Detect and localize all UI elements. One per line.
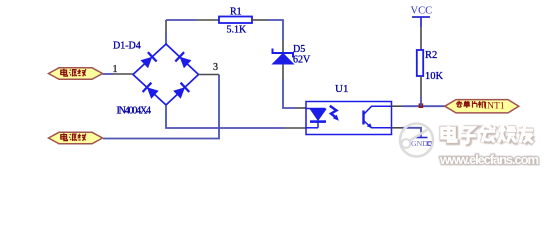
svg-text:5.1K: 5.1K: [227, 25, 248, 36]
svg-text:INT1: INT1: [484, 102, 505, 112]
svg-text:www.elecfans.com: www.elecfans.com: [439, 152, 539, 167]
svg-text:D1-D4: D1-D4: [113, 41, 141, 52]
wire node3 down to port2: [103, 75, 219, 139]
pin U1.4 collector: [392, 105, 403, 107]
resistor R2: [417, 50, 423, 76]
svg-text:D5: D5: [293, 44, 305, 55]
pin R1.1: [196, 19, 219, 21]
resistor R1: [219, 17, 252, 24]
wire R2 to junction: [420, 97, 422, 106]
port INT1 to MCU: [445, 100, 519, 113]
wire D5 to opto pin1: [283, 79, 296, 108]
pin R2.2: [420, 76, 422, 97]
wire inside box pin2 row: [306, 127, 318, 129]
svg-text:R2: R2: [425, 50, 437, 61]
diode D3 bottom-left: [143, 83, 159, 99]
power ground GND: [411, 138, 431, 149]
pin U1.3 emitter: [392, 127, 403, 129]
pin D5 anode: [282, 64, 284, 79]
pin R2.1: [420, 27, 422, 50]
wire port1 to bridge pin1: [103, 73, 114, 75]
pin D5 cathode: [282, 40, 284, 53]
wire top net from bridge plus to R1: [166, 19, 196, 21]
watermark logo circle: [400, 124, 433, 157]
bridge rectifier D1-D4 diamond: [133, 44, 199, 105]
pin bridge top: [165, 33, 167, 44]
svg-text:10K: 10K: [425, 71, 444, 82]
diode D4 bottom-right: [173, 83, 189, 99]
port INT1 text qu dan pian ji INT1: [456, 101, 485, 108]
pin R1.2: [252, 19, 268, 21]
svg-text:GND: GND: [411, 139, 428, 148]
port P1 dianyuanxian upper: [49, 68, 103, 80]
optocoupler U1 box: [306, 102, 392, 135]
port P1 text dianyuanxian: [61, 69, 86, 77]
port P2 dianyuanxian lower: [49, 132, 103, 144]
wire bridge top vertical: [165, 20, 167, 33]
opto LED: [306, 109, 326, 128]
pin U1.1: [296, 107, 306, 109]
power VCC symbol: [412, 17, 430, 27]
pin bridge right pin 3: [199, 74, 220, 76]
zener diode D5: [273, 49, 294, 65]
port P2 text dianyuanxian: [61, 133, 86, 141]
wire collector to port INT1: [402, 105, 445, 107]
opto phototransistor: [364, 106, 392, 128]
opto photon arrow: [330, 106, 339, 121]
svg-text:62V: 62V: [293, 55, 311, 66]
diode D1 top-left: [140, 52, 156, 68]
pin U1.2: [285, 127, 306, 129]
svg-text:VCC: VCC: [411, 6, 433, 17]
wire emitter to gnd: [402, 128, 421, 138]
wire R1 to D5 corner: [268, 20, 283, 40]
svg-text:3: 3: [213, 62, 218, 73]
svg-text:IN4004X4: IN4004X4: [117, 106, 152, 117]
wire bridge minus down: [166, 105, 285, 128]
pin bridge left pin 1: [113, 73, 133, 75]
svg-text:1: 1: [113, 64, 118, 75]
junction dot: [419, 103, 424, 108]
diode D2 top-right: [175, 52, 191, 68]
svg-text:R1: R1: [230, 7, 242, 18]
svg-text:U1: U1: [335, 83, 348, 95]
